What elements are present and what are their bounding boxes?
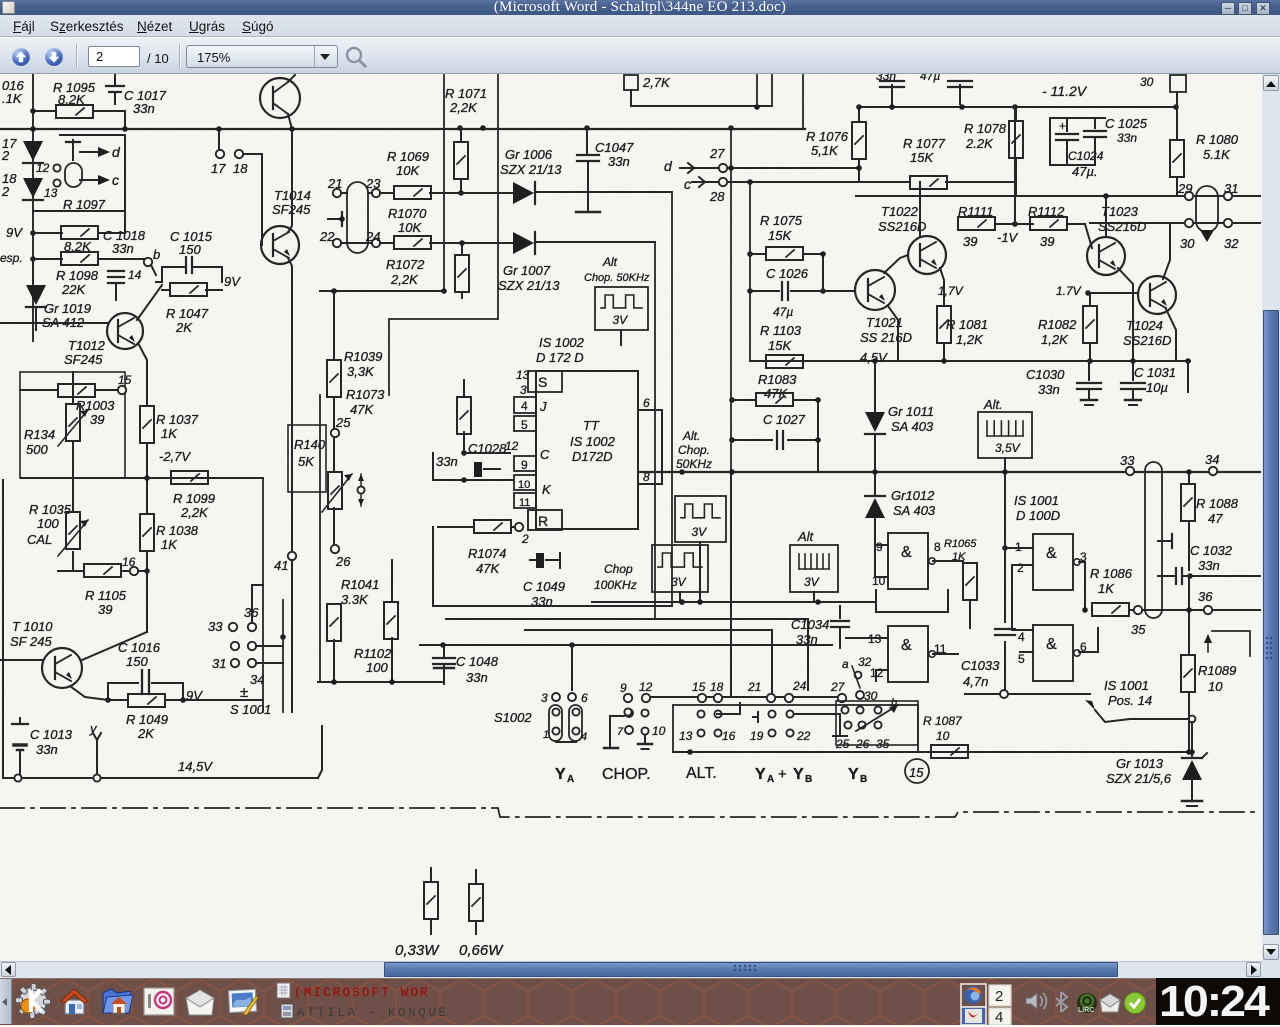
svg-text:(MICROSOFT WOR: (MICROSOFT WOR [294, 986, 430, 1000]
svg-text:ATTILA - KONQUE: ATTILA - KONQUE [297, 1006, 449, 1020]
svg-text:2: 2 [995, 988, 1003, 1005]
svg-text:4: 4 [995, 1009, 1003, 1025]
svg-text:LIRC: LIRC [1078, 1007, 1094, 1014]
